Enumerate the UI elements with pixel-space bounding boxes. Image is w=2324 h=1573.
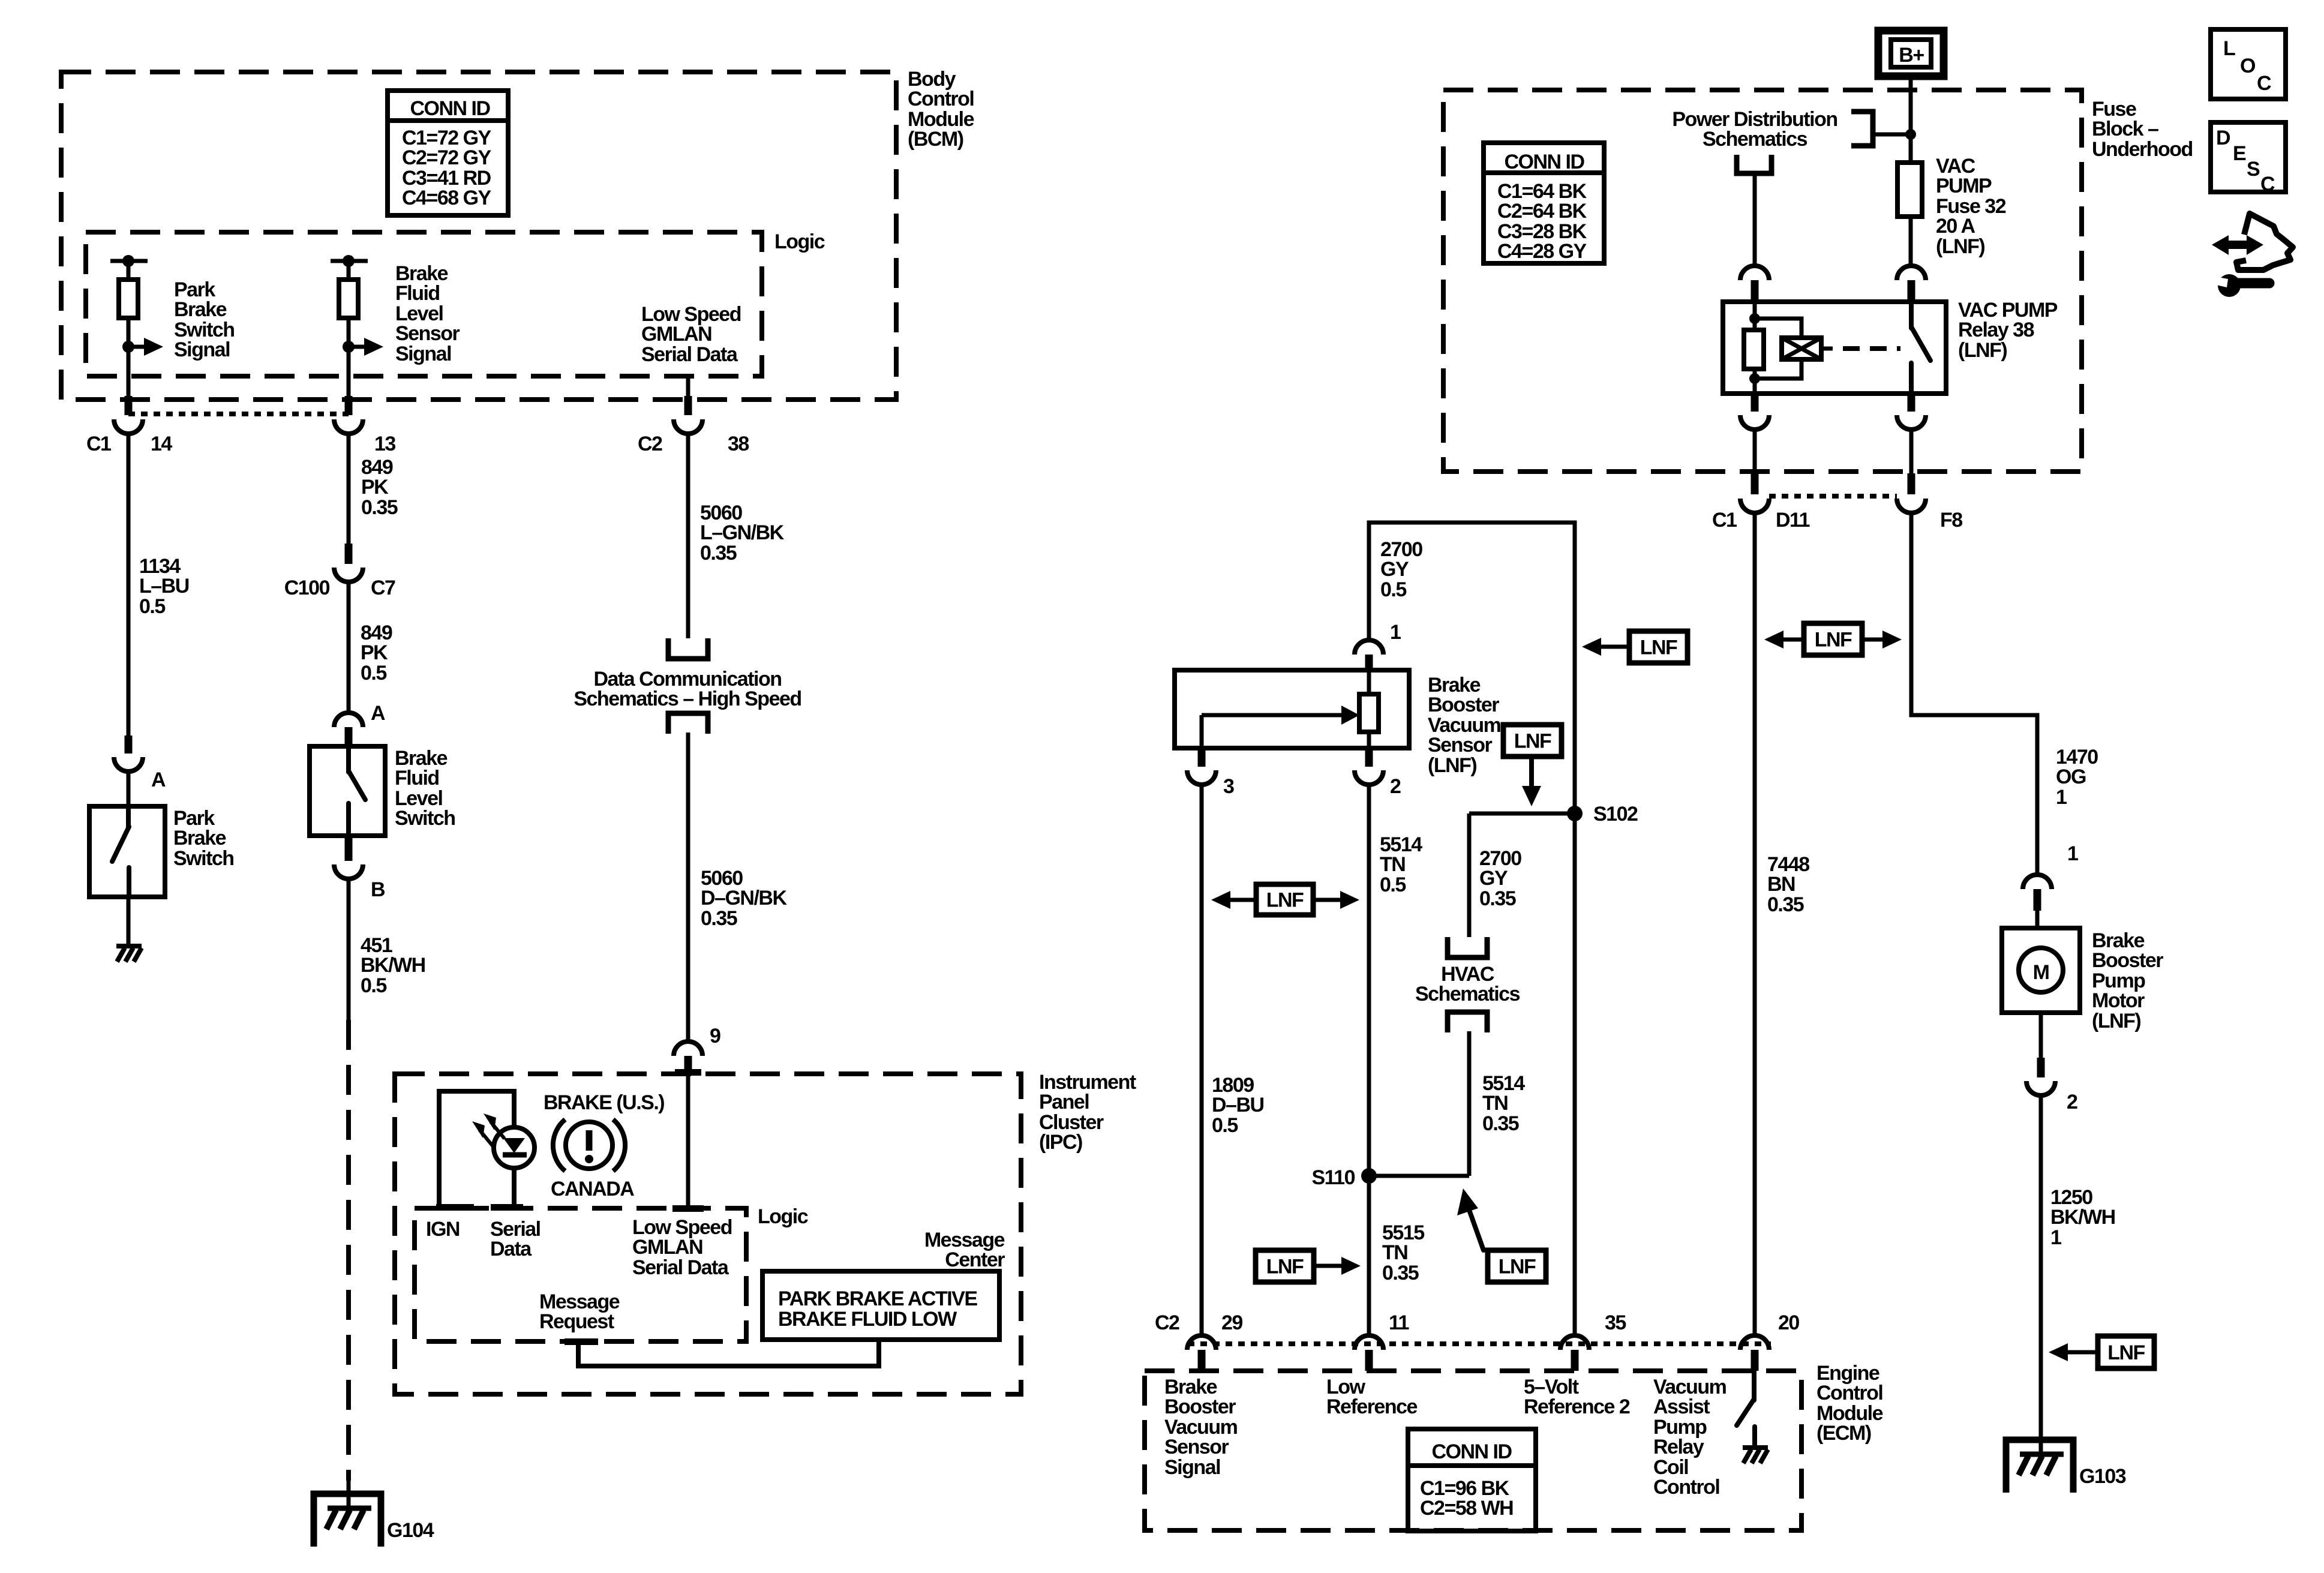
svg-text:Panel: Panel [1039, 1091, 1089, 1113]
svg-text:M: M [2033, 961, 2049, 984]
connector 1 (pump motor) [2023, 842, 2078, 928]
svg-text:PK: PK [361, 641, 388, 664]
label+bracket: Power Distribution Schematics [1672, 108, 1916, 151]
connector C1 pin 13 (BCM) [334, 396, 395, 455]
svg-text:LNF: LNF [1266, 1256, 1304, 1278]
svg-text:GMLAN: GMLAN [641, 323, 711, 346]
svg-text:0.35: 0.35 [361, 496, 398, 519]
svg-text:Underhood: Underhood [2092, 138, 2193, 161]
LNF tag (1250 wire) [2049, 1336, 2154, 1368]
wires to fuse block edge [1755, 430, 1911, 473]
connector 2 (vacuum sensor) [1355, 748, 1401, 798]
svg-text:BRAKE FLUID LOW: BRAKE FLUID LOW [778, 1308, 957, 1331]
wire B+ feed [1909, 76, 1913, 163]
wire 5515 TN 0.35 [1382, 1221, 1424, 1284]
svg-text:F8: F8 [1940, 509, 1962, 532]
svg-text:Signal: Signal [395, 343, 451, 365]
legend box DESC [2211, 122, 2286, 196]
battery feed B+ [1878, 31, 1944, 76]
svg-text:S110: S110 [1311, 1166, 1355, 1189]
svg-text:C4=68 GY: C4=68 GY [402, 187, 492, 209]
svg-text:1: 1 [2050, 1226, 2061, 1249]
relay switch contact [1911, 302, 1930, 394]
wire: message request to message center [565, 1338, 879, 1366]
connector F8 [1897, 473, 1962, 532]
CONN ID table (BCM C1=72 GY C2=72 GY C3=41 RD C4=68 GY) [388, 91, 508, 215]
wire 849 PK 0.5 [349, 582, 392, 714]
svg-text:C4=28 GY: C4=28 GY [1497, 240, 1587, 263]
svg-text:Sensor: Sensor [1428, 734, 1493, 757]
svg-text:C2=72 GY: C2=72 GY [402, 146, 492, 169]
svg-text:0.5: 0.5 [361, 662, 386, 685]
svg-text:GY: GY [1479, 867, 1508, 890]
connector pin 35 (ECM) [1560, 1311, 1626, 1371]
resistor: brake fluid level sensor signal pull-up [331, 255, 368, 400]
svg-text:20: 20 [1778, 1311, 1799, 1334]
svg-text:Data: Data [490, 1238, 532, 1260]
svg-text:PK: PK [361, 476, 389, 499]
svg-text:LNF: LNF [2107, 1341, 2145, 1364]
wire 2700 GY 0.5 (sensor pin 1 feed) [1369, 523, 1575, 1335]
relay output connectors [1740, 394, 1926, 430]
svg-text:D11: D11 [1776, 509, 1810, 532]
label: Message Request [539, 1290, 620, 1333]
LNF tag (down arrow to S102 branch) [1503, 725, 1562, 806]
svg-text:C2: C2 [638, 433, 662, 455]
svg-text:C: C [2257, 72, 2271, 95]
svg-text:PARK BRAKE ACTIVE: PARK BRAKE ACTIVE [778, 1287, 977, 1310]
svg-text:1: 1 [2067, 842, 2078, 865]
svg-text:CONN ID: CONN ID [1431, 1440, 1512, 1463]
svg-text:Relay 38: Relay 38 [1958, 319, 2034, 341]
svg-text:Center: Center [945, 1248, 1005, 1271]
svg-text:BK/WH: BK/WH [361, 954, 425, 977]
svg-text:Schematics: Schematics [1703, 128, 1807, 151]
svg-text:Logic: Logic [758, 1205, 808, 1228]
svg-text:Assist: Assist [1653, 1395, 1710, 1418]
LNF double-arrow tag (sensor wires) [1211, 884, 1359, 915]
wire 5060 D-GN/BK 0.35 [688, 733, 787, 1041]
svg-text:(LNF): (LNF) [1958, 339, 2007, 362]
relay actuation dashed link [1843, 346, 1900, 351]
module box: Instrument Panel Cluster (IPC) [395, 1071, 1136, 1394]
svg-text:0.35: 0.35 [1482, 1112, 1519, 1135]
off-page bracket under Power Distribution [1737, 155, 1771, 266]
svg-text:Logic: Logic [774, 230, 825, 253]
svg-text:14: 14 [151, 433, 172, 455]
off-page reference: HVAC Schematics [1415, 937, 1520, 1032]
ground G104 [314, 1494, 434, 1547]
connector pin 20 (ECM) [1740, 1311, 1799, 1371]
svg-text:PUMP: PUMP [1936, 175, 1992, 197]
LNF tag (diagonal arrow to S110) [1457, 1188, 1546, 1282]
svg-text:13: 13 [374, 433, 395, 455]
logic block (BCM Logic) [86, 230, 825, 376]
logic block (IPC Logic) [415, 1205, 808, 1341]
svg-text:Brake: Brake [173, 827, 226, 849]
label: Message Center [924, 1229, 1005, 1271]
CONN ID table (ECM C1=96 BK C2=58 WH) [1408, 1429, 1536, 1531]
svg-text:S: S [2247, 158, 2260, 181]
connector 9 (IPC) [674, 1025, 720, 1074]
svg-text:11: 11 [1389, 1311, 1409, 1334]
fuse F32: VAC PUMP Fuse 32 20 A (LNF) [1897, 155, 2006, 266]
svg-text:Reference: Reference [1326, 1395, 1418, 1418]
svg-text:C2=58 WH: C2=58 WH [1420, 1497, 1513, 1520]
module box U1: Body Control Module (BCM) [61, 68, 974, 400]
svg-text:GY: GY [1380, 558, 1409, 581]
pin bar at IPC top edge + GMLAN wire [672, 1069, 704, 1212]
svg-text:GMLAN: GMLAN [632, 1236, 702, 1259]
ECM driver switch to ground (pin 20) [1737, 1371, 1768, 1463]
LNF tag (5515 wire) [1256, 1250, 1361, 1282]
svg-text:0.5: 0.5 [1212, 1114, 1238, 1137]
svg-text:Sensor: Sensor [1164, 1436, 1229, 1458]
pin label: Low Reference [1326, 1376, 1418, 1418]
svg-text:0.35: 0.35 [1382, 1262, 1419, 1284]
connector 1 (vacuum sensor) [1355, 621, 1401, 670]
svg-text:LNF: LNF [1266, 889, 1304, 912]
CONN ID table (fuse block C1=64 BK C2=64 BK C3=28 BK C4=28 GY) [1484, 143, 1604, 263]
svg-text:BRAKE (U.S.): BRAKE (U.S.) [544, 1091, 664, 1114]
svg-text:Control: Control [1816, 1382, 1882, 1404]
svg-text:Block –: Block – [2092, 118, 2158, 140]
connector into relay (coil side) [1740, 266, 1769, 302]
svg-text:A: A [151, 769, 166, 791]
svg-text:Motor: Motor [2092, 989, 2145, 1012]
svg-text:Signal: Signal [174, 338, 230, 361]
label: Low Speed GMLAN Serial Data (BCM) [641, 303, 741, 366]
svg-text:Control: Control [1653, 1476, 1719, 1499]
svg-text:1: 1 [2056, 786, 2067, 809]
svg-text:L–GN/BK: L–GN/BK [700, 521, 785, 544]
module box: Fuse Block - Underhood [1443, 90, 2193, 472]
wire 1470 OG 1 (F8 to pump motor) [1911, 513, 2098, 875]
svg-text:Fluid: Fluid [395, 767, 439, 789]
relay solenoid element [1755, 319, 1833, 379]
svg-text:0.5: 0.5 [361, 974, 386, 997]
splice S102 [1469, 803, 1638, 825]
connector body dotted line C1 (BCM) [128, 412, 349, 416]
svg-text:LNF: LNF [1514, 730, 1551, 753]
svg-text:Control: Control [908, 88, 974, 110]
pin label: Vacuum Assist Pump Relay Coil Control [1653, 1376, 1727, 1499]
svg-text:CANADA: CANADA [551, 1178, 634, 1200]
svg-text:Booster: Booster [1164, 1395, 1236, 1418]
svg-text:0.35: 0.35 [1479, 887, 1516, 910]
connector 2 (pump motor) [2026, 1013, 2077, 1113]
svg-text:(BCM): (BCM) [908, 128, 963, 151]
svg-text:20 A: 20 A [1936, 215, 1975, 238]
svg-text:0.35: 0.35 [1767, 893, 1804, 916]
svg-text:(LNF): (LNF) [1428, 754, 1476, 777]
connector B [334, 836, 385, 901]
connector pin 11 (ECM) [1355, 1311, 1409, 1371]
wire 5060 L-GN/BK 0.35 [688, 434, 785, 638]
ground G103 [2006, 1440, 2126, 1493]
pin label: 5-Volt Reference 2 [1524, 1376, 1630, 1418]
node + signal arrow: Brake Fluid Level Sensor Signal [343, 262, 460, 365]
svg-text:B: B [371, 878, 385, 901]
connector C1 / D11 (underhood to engine harness) [1712, 473, 1810, 532]
module box: Engine Control Module (ECM) [1145, 1362, 1883, 1530]
svg-text:D–BU: D–BU [1212, 1094, 1264, 1116]
svg-text:L: L [2223, 37, 2235, 60]
wire 5514 TN 0.5 [1369, 785, 1422, 1335]
svg-text:LNF: LNF [1499, 1256, 1536, 1278]
svg-text:G103: G103 [2079, 1465, 2126, 1488]
LNF tag (S102 feed wire) [1582, 631, 1688, 663]
svg-text:C1: C1 [1712, 509, 1737, 532]
svg-text:C2=64 BK: C2=64 BK [1497, 200, 1587, 223]
svg-text:3: 3 [1223, 775, 1234, 798]
svg-text:OG: OG [2056, 766, 2086, 788]
svg-text:Switch: Switch [173, 847, 234, 870]
svg-text:29: 29 [1221, 1311, 1242, 1334]
svg-text:C100: C100 [284, 577, 330, 599]
wire 1250 BK/WH 1 [2041, 1095, 2115, 1454]
svg-text:9: 9 [710, 1025, 720, 1047]
svg-text:Switch: Switch [395, 807, 455, 830]
LNF double-arrow tag (D11/F8 wires) [1764, 623, 1902, 655]
wire: GMLAN inside BCM [686, 376, 690, 400]
switch SW: Brake Fluid Level Switch [310, 746, 455, 836]
wire 451 BK/WH 0.5 [349, 879, 425, 1020]
svg-text:0.35: 0.35 [700, 542, 737, 565]
connector C1 pin 14 (BCM) [86, 396, 172, 455]
svg-text:E: E [2233, 142, 2246, 165]
wire 5514 TN 0.35 (HVAC to S110) [1469, 1031, 1525, 1176]
svg-text:(LNF): (LNF) [1936, 235, 1984, 258]
svg-text:Request: Request [539, 1310, 614, 1333]
svg-text:(ECM): (ECM) [1816, 1422, 1871, 1445]
svg-text:Fluid: Fluid [395, 282, 440, 305]
svg-text:G104: G104 [387, 1519, 434, 1542]
connector A (brake fluid level switch) [334, 702, 385, 746]
svg-text:Serial Data: Serial Data [641, 343, 738, 366]
svg-text:CONN ID: CONN ID [1504, 151, 1584, 173]
svg-text:O: O [2240, 55, 2256, 77]
connector A (park brake switch) [114, 736, 166, 791]
svg-text:BN: BN [1767, 873, 1795, 896]
svg-text:TN: TN [1380, 853, 1405, 876]
svg-text:LNF: LNF [1640, 637, 1677, 659]
svg-text:Schematics – High Speed: Schematics – High Speed [574, 688, 801, 710]
svg-text:0.5: 0.5 [1380, 873, 1406, 896]
svg-text:C2: C2 [1155, 1311, 1179, 1334]
splice S110 [1311, 1166, 1469, 1189]
connector body dotted line (fuse block bottom) [1769, 494, 1897, 499]
svg-text:C: C [2260, 173, 2275, 196]
svg-text:TN: TN [1382, 1241, 1407, 1264]
svg-text:C1: C1 [86, 433, 111, 455]
svg-text:Relay: Relay [1653, 1436, 1704, 1458]
svg-text:(LNF): (LNF) [2092, 1010, 2140, 1032]
vehicle service icon (arrow, car outline, wrench) [2212, 214, 2293, 297]
wire 1809 D-BU 0.5 [1202, 785, 1264, 1335]
svg-text:(IPC): (IPC) [1039, 1131, 1082, 1154]
svg-text:Booster: Booster [1428, 694, 1499, 716]
svg-text:L–BU: L–BU [139, 575, 189, 598]
wire 451 continuation (dashed) to G104 [346, 1020, 351, 1509]
svg-text:2: 2 [1390, 775, 1401, 798]
connector 3 (vacuum sensor) [1187, 748, 1234, 798]
wire 849 PK 0.35 [349, 434, 398, 544]
svg-text:1: 1 [1390, 621, 1401, 644]
connector body dotted line (ECM) [1188, 1341, 1771, 1346]
svg-text:2: 2 [2067, 1091, 2077, 1113]
svg-text:LNF: LNF [1815, 629, 1852, 652]
sensor element resistor [1359, 670, 1379, 748]
svg-text:D–GN/BK: D–GN/BK [701, 887, 787, 909]
connector C2 pin 38 (BCM) [638, 396, 749, 455]
relay K38: VAC PUMP Relay 38 (LNF) [1723, 299, 2058, 394]
label: Low Speed GMLAN Serial Data (IPC) [632, 1216, 732, 1279]
brake warning telltale icon: BRAKE (U.S.) / CANADA [544, 1091, 664, 1200]
message center display box: PARK BRAKE ACTIVE / BRAKE FLUID LOW [762, 1271, 999, 1340]
svg-text:C7: C7 [371, 577, 395, 599]
svg-text:TN: TN [1482, 1092, 1508, 1115]
connector into relay (switch side) [1897, 266, 1926, 302]
pin label: Brake Booster Vacuum Sensor Signal [1164, 1376, 1238, 1479]
svg-text:B+: B+ [1899, 44, 1924, 67]
svg-text:Serial Data: Serial Data [632, 1256, 729, 1279]
sensor wiper arrow [1202, 706, 1359, 748]
svg-text:0.5: 0.5 [1380, 578, 1406, 601]
svg-text:CONN ID: CONN ID [410, 97, 490, 120]
svg-text:A: A [371, 702, 385, 725]
wire 1134 L-BU 0.5 [128, 434, 189, 736]
off-page reference: Data Communication Schematics - High Speed [574, 638, 801, 734]
legend box LOC [2211, 29, 2286, 99]
svg-text:S102: S102 [1593, 803, 1638, 825]
wire 2700 GY 0.35 (S102 to HVAC) [1469, 813, 1521, 937]
resistor: park brake switch signal pull-up [110, 255, 148, 400]
svg-text:38: 38 [728, 433, 749, 455]
svg-text:IGN: IGN [426, 1218, 460, 1241]
relay coil resistor [1744, 302, 1764, 394]
motor M: Brake Booster Pump Motor (LNF) [2002, 928, 2163, 1032]
LED emission arrows [472, 1113, 505, 1146]
svg-text:Booster: Booster [2092, 949, 2163, 972]
labels: IGN, Serial Data [426, 1218, 541, 1260]
LED indicator circuit [436, 1091, 535, 1211]
svg-text:BK/WH: BK/WH [2050, 1206, 2115, 1229]
connector C2 pin 29 (ECM) [1155, 1311, 1242, 1371]
ground (park brake switch) [116, 897, 142, 962]
svg-text:0.5: 0.5 [139, 595, 165, 618]
inline connector C100 / C7 [284, 544, 395, 599]
sensor box: Brake Booster Vacuum Sensor (LNF) [1175, 670, 1501, 777]
svg-text:Schematics: Schematics [1415, 983, 1520, 1005]
svg-text:35: 35 [1605, 1311, 1626, 1334]
switch SW: Park Brake Switch [89, 772, 234, 897]
node + signal arrow: Park Brake Switch Signal [122, 278, 235, 361]
svg-text:Sensor: Sensor [395, 322, 460, 345]
svg-text:D: D [2216, 127, 2230, 149]
svg-text:Reference 2: Reference 2 [1524, 1395, 1630, 1418]
wire 7448 BN 0.35 (D11 to ECM 20) [1755, 513, 1809, 1335]
svg-text:0.35: 0.35 [701, 907, 737, 930]
svg-text:Signal: Signal [1164, 1456, 1220, 1479]
svg-text:Brake: Brake [174, 298, 227, 321]
